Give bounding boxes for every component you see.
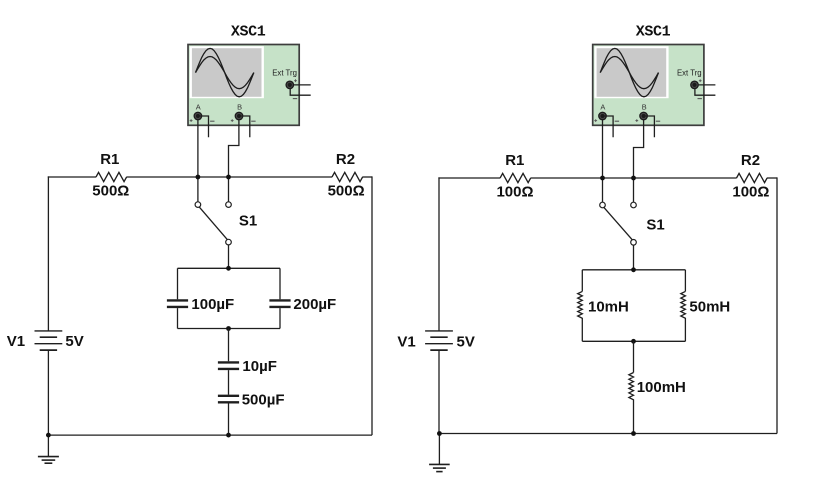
wire channel B minus stub xyxy=(241,116,250,137)
wire cap box right upper xyxy=(279,268,281,299)
node junction ind box bottom xyxy=(631,339,636,344)
svg-text:500Ω: 500Ω xyxy=(328,183,365,200)
ground (left) xyxy=(38,456,59,458)
wire channel A to node (right) xyxy=(602,120,604,202)
XSC1 screen xyxy=(190,46,264,98)
svg-text:B: B xyxy=(642,103,647,112)
wire cap box top xyxy=(178,267,281,269)
wire to 10uF xyxy=(228,329,230,362)
XSC1 waveform trace large xyxy=(196,48,254,96)
svg-text:V1: V1 xyxy=(7,333,25,350)
svg-text:A: A xyxy=(600,103,605,112)
XSC1 terminal A polarity marks xyxy=(190,120,193,122)
XSC1 terminal A xyxy=(194,112,203,121)
XSC1 terminal B xyxy=(639,112,648,121)
switch S1 blade (left) xyxy=(199,207,227,240)
wire channel B to node xyxy=(229,120,239,202)
wire bottom (right) xyxy=(439,433,777,435)
svg-text:Ext Trg: Ext Trg xyxy=(272,69,297,78)
capacitor 500uF xyxy=(218,395,239,397)
wire Ext Trg minus stub xyxy=(290,88,311,95)
wire top left segment (right) xyxy=(438,177,500,179)
svg-text:XSC1: XSC1 xyxy=(231,23,266,40)
wire ground stem (right) xyxy=(438,434,440,465)
switch S1 throw terminal 1 (left) xyxy=(195,202,201,208)
node junction bottom cap chain xyxy=(226,433,231,438)
battery V1 (right) xyxy=(425,330,453,332)
resistor R1 (right) xyxy=(500,173,531,182)
svg-text:100Ω: 100Ω xyxy=(496,183,533,200)
svg-text:100Ω: 100Ω xyxy=(732,183,769,200)
svg-text:Ext Trg: Ext Trg xyxy=(677,69,702,78)
svg-text:S1: S1 xyxy=(239,213,257,230)
node junction cap box top xyxy=(226,266,231,271)
svg-text:100µF: 100µF xyxy=(191,296,234,313)
svg-text:500Ω: 500Ω xyxy=(92,183,129,200)
XSC1 terminal A xyxy=(598,112,607,121)
wire switch pole to cap box xyxy=(228,245,230,268)
capacitor 100uF xyxy=(167,299,188,301)
switch S1 pole terminal (left) xyxy=(226,239,232,245)
svg-text:A: A xyxy=(196,103,201,112)
svg-text:10µF: 10µF xyxy=(242,358,277,375)
svg-text:200µF: 200µF xyxy=(293,296,336,313)
node junction ind box top xyxy=(631,267,636,272)
svg-text:B: B xyxy=(237,103,242,112)
wire top right segment xyxy=(362,176,372,178)
inductor 50mH xyxy=(681,291,686,320)
XSC1 terminal A polarity marks xyxy=(594,120,597,122)
svg-text:R1: R1 xyxy=(505,152,524,169)
wire channel B to node (right) xyxy=(634,120,644,202)
resistor R2 (left) xyxy=(332,172,363,181)
svg-text:S1: S1 xyxy=(646,217,664,234)
XSC1 Ext Trg polarity marks xyxy=(699,80,702,82)
wire ground stem (left) xyxy=(47,435,49,457)
XSC1 terminal B polarity marks xyxy=(635,120,638,122)
resistor R1 (left) xyxy=(96,172,127,181)
wire ind box right upper xyxy=(684,270,686,292)
switch S1 throw terminal 1 (right) xyxy=(600,202,606,208)
wire 100mH to bottom xyxy=(633,402,635,434)
oscilloscope XSC1 body xyxy=(188,45,299,126)
inductor 10mH xyxy=(578,291,583,320)
switch S1 blade (right) xyxy=(604,207,633,240)
wire Ext Trg plus stub xyxy=(294,84,311,86)
XSC1 Ext Trg terminal xyxy=(285,81,294,90)
switch S1 pole terminal (right) xyxy=(631,240,637,246)
XSC1 terminal B xyxy=(235,112,244,121)
XSC1 Ext Trg terminal xyxy=(690,81,699,90)
XSC1 waveform trace small xyxy=(196,57,254,89)
svg-text:500µF: 500µF xyxy=(242,391,285,408)
svg-text:XSC1: XSC1 xyxy=(636,23,671,40)
resistor R2 (right) xyxy=(737,173,768,182)
node junction B top wire xyxy=(226,175,231,180)
node junction A top wire (right) xyxy=(600,176,605,181)
wire top middle segment xyxy=(127,176,333,178)
XSC1 Ext Trg polarity marks xyxy=(294,80,297,82)
wire left vertical (right) xyxy=(438,177,440,331)
wire Ext Trg plus stub xyxy=(699,84,716,86)
wire channel A to node xyxy=(197,120,199,202)
wire channel A minus stub xyxy=(200,116,209,137)
wire ind box top xyxy=(582,269,685,271)
wire channel B minus stub xyxy=(646,116,655,137)
wire top middle segment (right) xyxy=(531,177,737,179)
XSC1 terminal B polarity marks xyxy=(231,120,234,122)
XSC1 waveform trace small xyxy=(600,57,658,89)
wire cap box left upper xyxy=(177,268,179,299)
XSC1 waveform trace large xyxy=(600,48,658,96)
wire cap box right lower xyxy=(279,308,281,328)
node junction bottom ground (right) xyxy=(437,431,442,436)
svg-text:R1: R1 xyxy=(100,151,119,168)
node junction bottom ind chain (right) xyxy=(631,431,636,436)
node junction bottom ground xyxy=(46,433,51,438)
wire channel A minus stub xyxy=(605,116,614,137)
wire ind box left upper xyxy=(581,270,583,292)
capacitor 10uF xyxy=(218,361,239,363)
svg-text:5V: 5V xyxy=(457,334,475,351)
wire to 100mH xyxy=(633,341,635,372)
ground (right) xyxy=(429,463,450,465)
wire left vertical xyxy=(47,176,49,331)
node junction A top wire xyxy=(196,175,201,180)
wire battery to bottom xyxy=(47,350,49,435)
switch S1 throw terminal 2 (left) xyxy=(226,202,232,208)
wire top right segment (right) xyxy=(767,177,777,179)
wire cap box bottom xyxy=(178,328,281,330)
wire 500uF to bottom xyxy=(228,404,230,436)
svg-text:5V: 5V xyxy=(65,333,83,350)
wire ind box bottom xyxy=(582,340,685,342)
wire battery to bottom (right) xyxy=(438,350,440,433)
wire right vertical xyxy=(371,176,373,435)
wire Ext Trg minus stub xyxy=(695,88,716,95)
wire 10uF to 500uF xyxy=(228,370,230,395)
wire cap box left lower xyxy=(177,308,179,328)
inductor 100mH xyxy=(629,373,634,403)
wire ind box right lower xyxy=(684,321,686,342)
capacitor 200uF xyxy=(269,299,290,301)
svg-text:R2: R2 xyxy=(741,152,760,169)
svg-text:V1: V1 xyxy=(397,334,415,351)
node junction B top wire (right) xyxy=(631,176,636,181)
wire right vertical (right) xyxy=(776,177,778,433)
XSC1 screen xyxy=(594,46,668,98)
svg-text:R2: R2 xyxy=(336,151,355,168)
wire ind box left lower xyxy=(581,321,583,342)
svg-text:50mH: 50mH xyxy=(689,298,730,315)
svg-text:100mH: 100mH xyxy=(637,379,686,396)
wire bottom xyxy=(48,434,372,436)
svg-text:10mH: 10mH xyxy=(588,298,629,315)
oscilloscope XSC1 body xyxy=(593,45,704,126)
switch S1 throw terminal 2 (right) xyxy=(631,202,637,208)
wire switch pole to ind box xyxy=(633,245,635,270)
battery V1 (left) xyxy=(35,330,63,332)
node junction cap box bottom xyxy=(226,326,231,331)
wire top left segment xyxy=(48,176,96,178)
